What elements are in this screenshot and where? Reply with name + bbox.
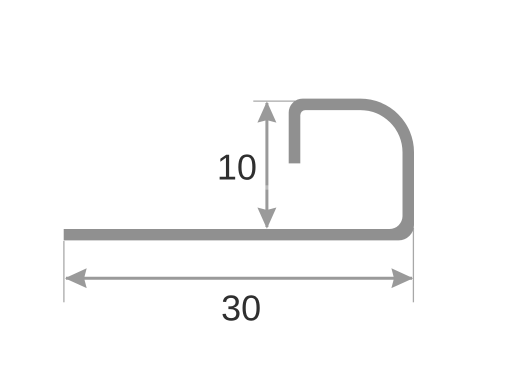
arrowhead right	[391, 268, 413, 288]
dimension line vertical (10)	[265, 103, 268, 227]
profile cross-section (tile trim)	[64, 99, 414, 241]
label 30	[222, 295, 259, 320]
arrowhead up	[257, 101, 276, 122]
extension line right (for dim 30)	[412, 228, 414, 302]
label 10	[220, 154, 256, 179]
arrowhead left	[65, 268, 87, 288]
faint joint on vertical dimension line	[265, 185, 268, 189]
dimension line horizontal (30)	[66, 277, 412, 280]
arrowhead down	[257, 208, 276, 229]
extension line left (for dim 30)	[63, 241, 65, 302]
extension line top (for dim 10)	[253, 100, 295, 102]
